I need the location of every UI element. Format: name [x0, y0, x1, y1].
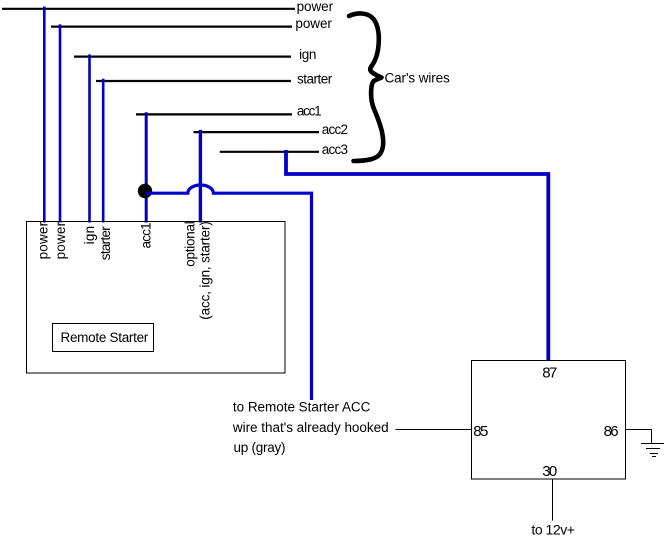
wire car starter line: [96, 80, 291, 82]
wire blue acc3 to relay 87: [286, 150, 548, 361]
svg-text:to Remote Starter ACC: to Remote Starter ACC: [233, 400, 371, 415]
ground symbol: [641, 444, 664, 457]
svg-text:power: power: [297, 0, 334, 14]
svg-text:85: 85: [473, 423, 488, 440]
svg-text:power: power: [53, 221, 68, 259]
box Remote Starter unit: [27, 222, 286, 374]
wire blue power2 drop: [59, 24, 62, 222]
svg-text:acc3: acc3: [322, 142, 348, 157]
box Remote Starter label box: [53, 324, 154, 352]
svg-text:(acc, ign, starter): (acc, ign, starter): [197, 221, 212, 320]
wire relay 30 to 12v+: [552, 479, 554, 521]
wire car power2 line: [51, 26, 292, 28]
svg-text:optional: optional: [183, 221, 198, 267]
svg-text:Car's wires: Car's wires: [385, 71, 451, 86]
wire blue optional drop (from acc2): [199, 130, 202, 223]
wire blue starter drop: [102, 79, 105, 223]
wire blue acc1 drop: [145, 112, 148, 222]
svg-text:starter: starter: [98, 226, 113, 261]
wire blue power1 drop: [43, 7, 46, 223]
svg-text:86: 86: [604, 423, 619, 440]
wire car power1 line: [2, 8, 295, 10]
wire blue splice from dot with hop over optional, down to note: [146, 185, 312, 400]
svg-text:acc2: acc2: [322, 122, 348, 137]
svg-text:acc1: acc1: [139, 222, 154, 248]
svg-text:up (gray): up (gray): [234, 440, 286, 455]
svg-text:wire that's already hooked: wire that's already hooked: [232, 420, 389, 435]
svg-text:to 12v+: to 12v+: [531, 522, 575, 538]
brace Car's wires: [349, 13, 383, 161]
svg-text:starter: starter: [297, 72, 333, 87]
wire car acc1 line: [136, 113, 292, 115]
svg-text:87: 87: [542, 364, 557, 381]
wire note to relay pin 85: [396, 429, 472, 431]
svg-text:30: 30: [542, 463, 557, 480]
svg-text:power: power: [35, 221, 50, 259]
svg-text:ign: ign: [299, 47, 316, 62]
svg-text:acc1: acc1: [297, 104, 322, 119]
box relay: [472, 361, 626, 480]
svg-text:ign: ign: [82, 226, 97, 245]
wire car ign line: [74, 55, 291, 57]
wire car acc2 line: [194, 131, 320, 133]
svg-text:Remote Starter: Remote Starter: [61, 330, 149, 345]
wire blue ign drop: [88, 54, 91, 222]
wire car acc3 line: [220, 151, 319, 153]
wire relay 86 to ground: [626, 430, 652, 444]
svg-text:power: power: [295, 16, 332, 31]
junction dot on acc1: [138, 184, 152, 198]
